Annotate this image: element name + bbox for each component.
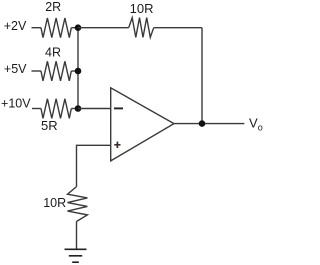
svg-text:4R: 4R [45, 46, 61, 60]
node output (junction dot) [199, 120, 206, 127]
ground [65, 249, 87, 262]
resistor 2R [41, 18, 71, 38]
svg-text:10R: 10R [43, 196, 66, 210]
wire +10V lead [32, 108, 41, 110]
wire output [174, 123, 244, 125]
wire feedback top right segment [154, 27, 202, 29]
wire 5R to node C [71, 108, 78, 110]
svg-text:+5V: +5V [4, 62, 27, 76]
svg-text:5R: 5R [41, 118, 58, 133]
wire summing bus (vertical) [77, 28, 79, 109]
op-amp U1 [111, 88, 174, 161]
wire 4R to node B [71, 70, 78, 72]
svg-text:+10V: +10V [1, 97, 31, 111]
wire to ground [76, 222, 78, 250]
svg-text:V: V [249, 115, 258, 130]
svg-text:+2V: +2V [4, 19, 27, 33]
node A (junction dot, +2V row) [75, 24, 82, 31]
resistor 10R (feedback) [129, 18, 154, 38]
wire noninverting input [77, 145, 111, 186]
wire feedback vertical down to output [201, 28, 203, 124]
node C (junction dot, inverting input row) [75, 105, 82, 112]
svg-text:10R: 10R [130, 1, 154, 16]
wire +5V lead [32, 70, 42, 72]
resistor 4R [41, 61, 71, 81]
resistor 10R (ground leg, vertical) [68, 187, 88, 222]
node B (junction dot, +5V row) [75, 68, 82, 75]
resistor 5R [41, 99, 71, 119]
wire 2R to node A [71, 27, 78, 29]
svg-text:2R: 2R [45, 0, 61, 14]
pin + (noninverting marker) [114, 142, 120, 148]
wire inverting input [78, 108, 111, 110]
wire +2V lead [32, 27, 42, 29]
wire feedback top left segment [78, 27, 129, 29]
svg-text:o: o [258, 123, 263, 133]
pin - (inverting marker) [114, 107, 123, 109]
